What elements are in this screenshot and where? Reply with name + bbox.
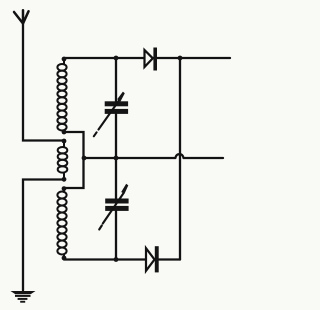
diode D1 [145, 48, 158, 71]
node cap branch / middle bus [114, 156, 119, 161]
node center tap [82, 156, 87, 161]
antenna [14, 10, 29, 23]
wire bottom bus [64, 258, 180, 260]
ground [11, 291, 36, 303]
coil L1 secondary top half [57, 59, 66, 132]
wire capacitor branch vertical [115, 58, 117, 260]
node coil L2 top [62, 186, 67, 191]
node coil L1 top [62, 57, 67, 62]
node coil L1 bottom [62, 130, 67, 135]
capacitor C1 variable [94, 92, 128, 137]
coil primary antenna winding [58, 141, 68, 179]
node primary top (antenna) [62, 139, 67, 144]
wire hop over right vertical [175, 154, 183, 158]
node cap branch / bottom bus [114, 257, 119, 262]
wire center-tap output (middle bus) [84, 157, 176, 159]
wire primary coil bottom to ground [23, 180, 63, 291]
wire top bus [64, 57, 230, 59]
coil L2 secondary bottom half [57, 189, 66, 258]
node diode D1 output [178, 56, 183, 61]
node coil L2 bottom [62, 256, 67, 261]
capacitor C2 variable [99, 184, 128, 230]
wire antenna down-lead to primary coil top [23, 24, 63, 141]
node primary bottom (ground) [62, 177, 67, 182]
diode D2 [146, 246, 159, 272]
node cap branch / top bus [114, 56, 119, 61]
wire center-tap link (L1 bottom to L2 top via tap) [64, 132, 84, 188]
wire right vertical joining diode cathodes [179, 58, 181, 260]
wire middle bus right of hop [184, 157, 223, 159]
